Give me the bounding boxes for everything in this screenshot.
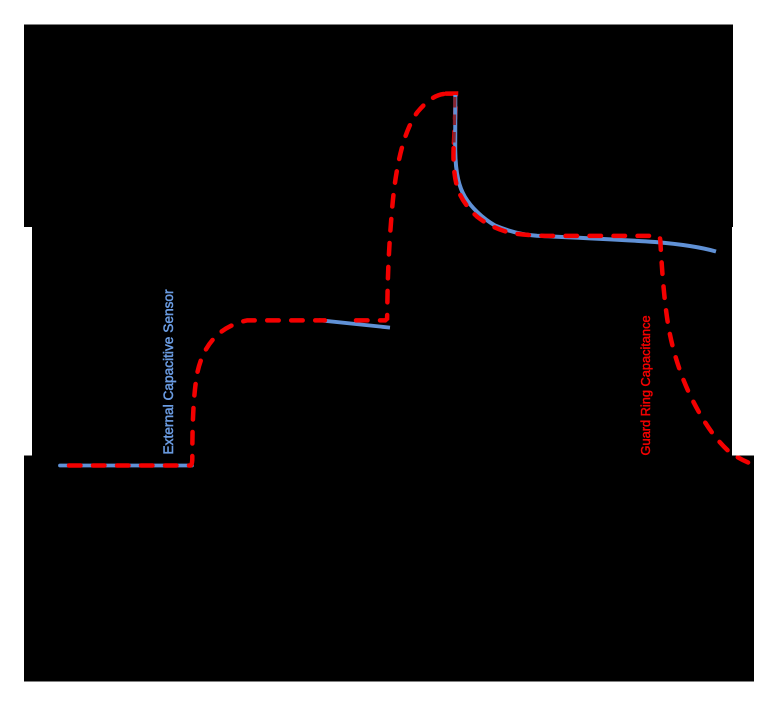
svg-text:External Capacitive Sensor: External Capacitive Sensor: [161, 289, 176, 455]
blue trace: first plateau segment: [319, 320, 390, 327]
red dashed trace: peak cap and upper drop (under blue): [446, 94, 456, 153]
blue trace: baseline segment: [60, 464, 192, 468]
red dashed trace (guard ring): plateau end and second rise: [356, 94, 444, 320]
blue trace: peak drop and second plateau: [455, 95, 716, 252]
svg-text:Guard Ring Capacitance: Guard Ring Capacitance: [638, 315, 653, 455]
red ghost dashes over blue vertical: [454, 97, 455, 149]
red dashed trace: lower decay, second plateau and tail: [453, 148, 753, 465]
red dashed trace (guard ring): baseline, first rise, first plateau: [69, 320, 325, 465]
